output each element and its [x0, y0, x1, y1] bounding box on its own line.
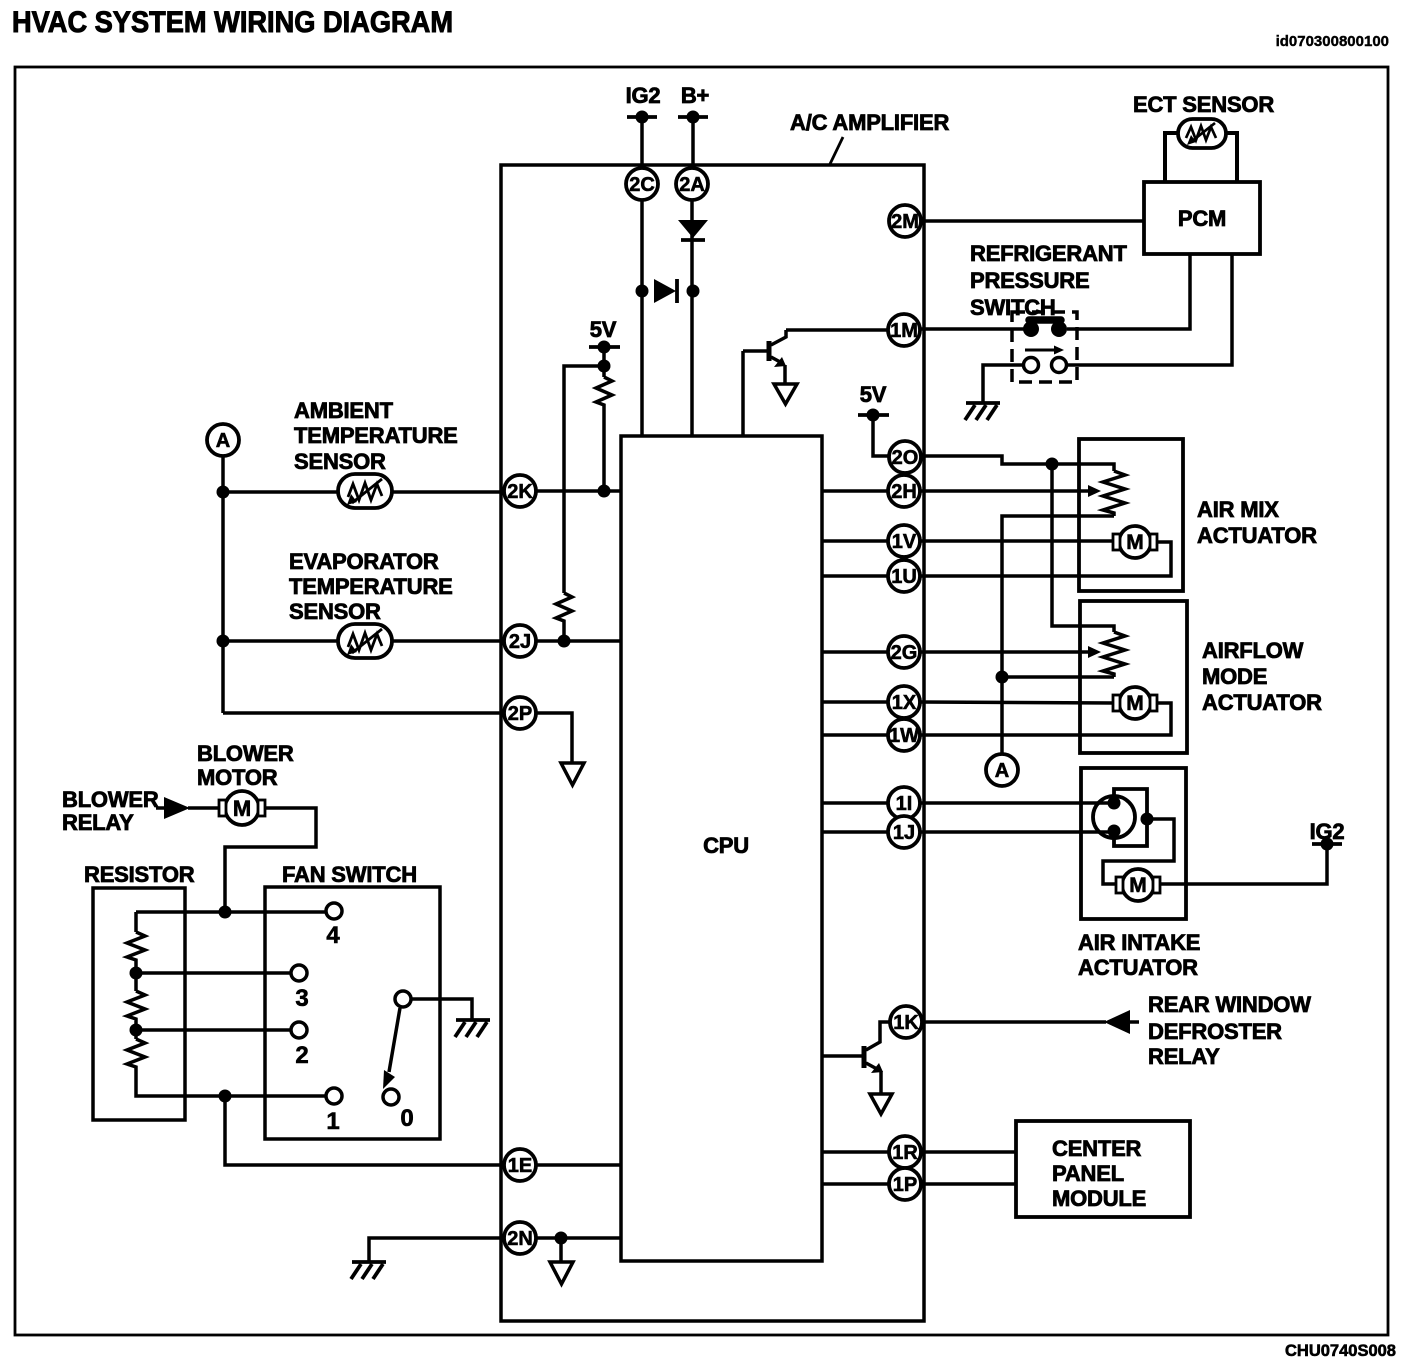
svg-text:CPU: CPU: [703, 833, 749, 858]
svg-text:RELAY: RELAY: [62, 810, 134, 835]
transistor Q2: [822, 1022, 890, 1073]
svg-text:SENSOR: SENSOR: [294, 449, 386, 474]
svg-text:PRESSURE: PRESSURE: [970, 268, 1089, 293]
pin 1R: [889, 1136, 921, 1168]
svg-text:M: M: [1126, 692, 1144, 715]
thermistor evaporator temperature sensor: [338, 624, 392, 658]
wire motor to IG2 terminal: [1160, 844, 1327, 884]
pin 1M: [888, 314, 920, 346]
svg-text:2N: 2N: [507, 1228, 533, 1250]
wire 1P to center panel module: [921, 1182, 1016, 1186]
power terminal IG2 (top): [626, 83, 661, 124]
pin 1V: [888, 525, 920, 557]
svg-text:ECT SENSOR: ECT SENSOR: [1133, 92, 1274, 117]
transistor Q1: [743, 330, 786, 367]
wire 5V to 2O: [873, 415, 889, 456]
node R1/2K: [598, 485, 611, 498]
svg-text:CHU0740S008: CHU0740S008: [1285, 1342, 1396, 1360]
svg-text:2P: 2P: [508, 703, 532, 725]
wire resistor chain top: [134, 912, 138, 932]
ground arrow below 2P: [561, 763, 584, 785]
wire 2M to PCM: [921, 219, 1144, 223]
pin 2A: [676, 168, 708, 200]
wire 2H to pot wiper arrow: [920, 489, 1090, 493]
pin 2G: [888, 636, 920, 668]
svg-text:1W: 1W: [889, 725, 919, 747]
motor M (air intake): [1116, 869, 1160, 901]
wire pivot to ground: [411, 999, 472, 1019]
pin 1K: [890, 1006, 922, 1038]
pin 2C: [626, 168, 658, 200]
wire 2N to CPU: [536, 1236, 621, 1240]
contact 2: [291, 1022, 307, 1038]
A/C amplifier box: [501, 165, 924, 1321]
wire chain bottom to row 1: [136, 1069, 326, 1096]
switch pivot contact: [395, 991, 411, 1007]
svg-text:BLOWER: BLOWER: [197, 741, 294, 766]
wire branch left from 5V node: [564, 366, 604, 593]
wire IG2 to pin 2C: [640, 117, 644, 168]
wire 2J row: [223, 639, 504, 643]
svg-text:2: 2: [295, 1042, 308, 1069]
node on 2J row: [217, 635, 230, 648]
svg-text:M: M: [233, 796, 251, 821]
wire Q1 base to CPU: [741, 351, 745, 436]
wire R1 to 2K row: [602, 408, 606, 491]
svg-text:A/C AMPLIFIER: A/C AMPLIFIER: [790, 110, 949, 135]
wire 2O-net down to airflow pot: [1052, 464, 1114, 632]
svg-text:1I: 1I: [896, 793, 913, 815]
svg-text:EVAPORATOR: EVAPORATOR: [289, 549, 439, 574]
motor M (air mix): [1113, 526, 1157, 558]
node row 3: [130, 967, 143, 980]
svg-text:2K: 2K: [507, 481, 533, 503]
rotary switch (air intake): [1093, 789, 1154, 846]
svg-text:FAN SWITCH: FAN SWITCH: [282, 862, 417, 887]
svg-text:DEFROSTER: DEFROSTER: [1148, 1019, 1282, 1044]
node motor net / row 4: [219, 906, 232, 919]
svg-text:0: 0: [400, 1105, 413, 1132]
A/C amplifier pointer line: [830, 137, 843, 164]
node on 2K row: [217, 486, 230, 499]
svg-text:1V: 1V: [892, 531, 917, 553]
resistor R3: [127, 932, 145, 962]
node A circle (right): [986, 754, 1018, 786]
wire R3-R4: [134, 962, 138, 991]
pin 2J: [504, 625, 536, 657]
wire 1K to relay arrow: [922, 1020, 1106, 1024]
wire 2G to pot wiper arrow: [920, 650, 1090, 654]
wire 1X to motor: [920, 702, 1114, 703]
node A circle (left): [207, 424, 239, 456]
svg-text:MODULE: MODULE: [1052, 1186, 1146, 1211]
pin 1E: [504, 1149, 536, 1181]
svg-text:AIR MIX: AIR MIX: [1197, 497, 1279, 522]
wire 1R to center panel module: [921, 1150, 1016, 1154]
diode D1 on B+ line: [678, 220, 708, 240]
svg-text:AIRFLOW: AIRFLOW: [1202, 638, 1304, 663]
power terminal 5V (right): [858, 382, 889, 422]
wire switch to motor: [1103, 819, 1174, 884]
wire motor loop to 1W: [920, 703, 1171, 735]
svg-text:REFRIGERANT: REFRIGERANT: [970, 241, 1127, 266]
pin 1I: [888, 787, 920, 819]
svg-text:PANEL: PANEL: [1052, 1161, 1124, 1186]
contact 1: [326, 1088, 342, 1104]
svg-text:1U: 1U: [891, 566, 917, 588]
svg-text:RESISTOR: RESISTOR: [84, 862, 195, 887]
chassis ground (2N): [351, 1262, 386, 1279]
connector arrow to rear window defroster relay: [1104, 1010, 1139, 1034]
pin 2O: [889, 441, 921, 473]
wire 2J to CPU: [536, 639, 621, 643]
wire row 2 to contact 2: [136, 1028, 291, 1032]
pin 1U: [888, 560, 920, 592]
thermistor ambient temperature sensor: [338, 474, 392, 508]
refrigerant pressure switch S1: [1012, 312, 1077, 382]
wire 1E to CPU: [536, 1163, 621, 1167]
node R2/2J: [558, 635, 571, 648]
node 2N ground branch: [555, 1232, 568, 1245]
wire row1 to 1E: [225, 1096, 504, 1165]
wire 5V stem: [602, 347, 606, 377]
airflow mode actuator box: [1080, 601, 1187, 753]
svg-text:BLOWER: BLOWER: [62, 787, 159, 812]
wire pot bottom to A-net: [1002, 516, 1114, 754]
resistor R2 (5V to 2J): [556, 593, 572, 627]
svg-text:B+: B+: [681, 83, 709, 108]
wire 2N to left ground: [369, 1238, 504, 1262]
wire 1V to motor: [920, 539, 1114, 543]
svg-text:3: 3: [295, 985, 308, 1012]
resistor box: [93, 888, 185, 1120]
wire 1J to intake switch: [920, 830, 1114, 834]
wire row 4 (motor to contact 4): [136, 910, 326, 914]
wire relay arrow to blower motor: [188, 806, 224, 810]
svg-text:2H: 2H: [891, 481, 917, 503]
contact 4: [326, 903, 342, 919]
PCM box: [1144, 182, 1260, 254]
svg-text:MODE: MODE: [1202, 664, 1267, 689]
chassis ground (pressure switch): [965, 403, 1000, 420]
chassis ground (fan switch): [455, 1020, 490, 1037]
svg-text:REAR WINDOW: REAR WINDOW: [1148, 992, 1311, 1017]
svg-text:1K: 1K: [893, 1012, 919, 1034]
pin 1J: [888, 816, 920, 848]
resistor R5: [127, 1039, 145, 1069]
wire pot bottom to A-net: [1002, 675, 1114, 679]
pin 1W: [888, 719, 920, 751]
potentiometer air mix: [1103, 471, 1125, 516]
wire 2P row: [223, 711, 504, 715]
power terminal B+: [678, 83, 709, 124]
wire 2G from CPU: [822, 650, 888, 654]
svg-text:TEMPERATURE: TEMPERATURE: [289, 574, 453, 599]
pin 1P: [889, 1168, 921, 1200]
wire pressure switch bottom to PCM: [1067, 254, 1232, 365]
svg-text:AMBIENT: AMBIENT: [294, 398, 394, 423]
svg-text:1J: 1J: [893, 822, 915, 844]
svg-text:RELAY: RELAY: [1148, 1044, 1220, 1069]
wire ECT sensor leads: [1165, 133, 1178, 182]
wire R4-R5: [134, 1021, 138, 1039]
svg-text:1X: 1X: [892, 692, 917, 714]
pin 2N: [504, 1222, 536, 1254]
wire 2K row: [223, 490, 504, 494]
svg-text:2A: 2A: [679, 174, 705, 196]
svg-text:M: M: [1129, 874, 1147, 897]
svg-text:4: 4: [326, 922, 340, 949]
pin 2M: [889, 205, 921, 237]
center panel module box: [1016, 1121, 1190, 1217]
diode D2 between 2C and 2A lines: [654, 279, 677, 303]
svg-text:1M: 1M: [890, 320, 918, 342]
svg-text:MOTOR: MOTOR: [197, 765, 278, 790]
svg-text:1R: 1R: [892, 1142, 918, 1164]
svg-text:id070300800100: id070300800100: [1276, 33, 1389, 50]
wire 2C down to CPU: [640, 200, 644, 436]
wire 2A down to CPU: [690, 200, 694, 436]
node row 1: [219, 1090, 232, 1103]
resistor R4: [127, 991, 145, 1021]
motor M (blower): [219, 791, 265, 825]
power terminal 5V (left): [589, 317, 620, 354]
node A-net/pot: [996, 671, 1009, 684]
contact 0: [383, 1089, 399, 1105]
connector arrow from blower relay: [156, 797, 190, 819]
svg-text:PCM: PCM: [1178, 206, 1226, 231]
svg-text:ACTUATOR: ACTUATOR: [1078, 955, 1198, 980]
svg-text:5V: 5V: [590, 317, 617, 342]
svg-text:1P: 1P: [893, 1174, 917, 1196]
wire node to ground arrow: [559, 1238, 563, 1262]
pin 2H: [888, 475, 920, 507]
svg-text:5V: 5V: [860, 382, 887, 407]
node branch of 5V: [598, 360, 611, 373]
switch lever arm: [383, 1008, 400, 1089]
wire 2H from CPU: [822, 489, 888, 493]
ground arrow below Q2: [870, 1094, 892, 1114]
pin 2P: [504, 697, 536, 729]
wire 1M to pressure switch: [920, 327, 1026, 331]
svg-text:ACTUATOR: ACTUATOR: [1197, 523, 1317, 548]
svg-text:HVAC SYSTEM WIRING DIAGRAM: HVAC SYSTEM WIRING DIAGRAM: [12, 6, 453, 39]
svg-text:TEMPERATURE: TEMPERATURE: [294, 423, 458, 448]
svg-text:2O: 2O: [892, 447, 919, 469]
fan switch box: [265, 887, 440, 1139]
motor M (airflow): [1113, 687, 1157, 719]
wire R2 to 2J row: [562, 627, 566, 641]
wire Q1 collector to 1M: [786, 328, 888, 332]
power terminal IG2 (right): [1310, 819, 1345, 851]
wire row 3 to contact 3: [136, 971, 291, 975]
svg-text:2M: 2M: [891, 211, 919, 233]
svg-text:IG2: IG2: [626, 83, 661, 108]
wire 2K to CPU: [536, 489, 621, 493]
ground arrow below 2N node: [550, 1262, 573, 1284]
wire blower motor to resistor/fan switch: [225, 808, 316, 912]
wire Q1 emitter to ground: [783, 365, 787, 384]
svg-text:ACTUATOR: ACTUATOR: [1202, 690, 1322, 715]
ground arrow below Q1: [774, 384, 797, 404]
wire pressure switch to ground: [983, 365, 1023, 402]
pin 1X: [888, 686, 920, 718]
node row 2: [130, 1024, 143, 1037]
svg-text:AIR INTAKE: AIR INTAKE: [1078, 930, 1200, 955]
wire Q2 emitter to ground: [879, 1071, 883, 1094]
svg-text:1: 1: [326, 1108, 339, 1135]
wire 2O to air mix pot (step): [922, 456, 1114, 471]
svg-text:A: A: [995, 760, 1009, 782]
thermistor ECT sensor: [1178, 119, 1226, 148]
svg-text:SENSOR: SENSOR: [289, 599, 381, 624]
node junction on 2C line: [636, 285, 649, 298]
air intake actuator box: [1081, 768, 1186, 919]
wire pressure switch top to PCM: [1067, 254, 1190, 329]
wire 2P to ground: [536, 713, 572, 763]
wire motor loop to 1U: [920, 542, 1171, 576]
wire A down the left bus: [221, 456, 225, 713]
wire B+ to pin 2A: [691, 117, 695, 168]
contact 3: [291, 965, 307, 981]
svg-text:A: A: [216, 430, 230, 452]
air mix actuator box: [1079, 439, 1183, 591]
svg-text:2C: 2C: [629, 174, 655, 196]
resistor R1 (5V to 2K): [596, 377, 612, 408]
node on 2O net: [1046, 458, 1059, 471]
svg-text:1E: 1E: [508, 1155, 532, 1177]
svg-text:2G: 2G: [891, 642, 918, 664]
svg-text:2J: 2J: [509, 631, 531, 653]
svg-text:M: M: [1126, 531, 1144, 554]
CPU U1: [621, 436, 822, 1261]
svg-text:CENTER: CENTER: [1052, 1136, 1142, 1161]
wire 1I to intake switch: [920, 801, 1114, 805]
pin 2K: [504, 475, 536, 507]
node junction on 2A line: [687, 285, 700, 298]
potentiometer airflow: [1103, 632, 1125, 677]
